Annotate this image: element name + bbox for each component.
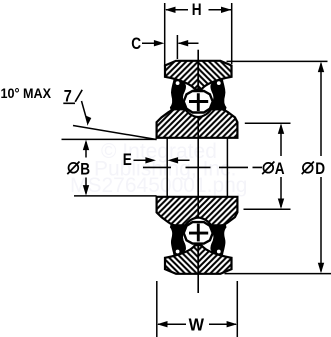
svg-text:A: A xyxy=(275,160,285,179)
svg-text:C: C xyxy=(131,35,141,54)
svg-text:H: H xyxy=(192,1,202,20)
svg-text:B: B xyxy=(80,160,90,179)
svg-text:E: E xyxy=(123,150,132,169)
svg-text:10° MAX: 10° MAX xyxy=(1,85,52,101)
svg-text:MS276450001.png: MS276450001.png xyxy=(70,174,248,197)
svg-text:D: D xyxy=(315,160,325,179)
svg-text:W: W xyxy=(189,315,204,335)
